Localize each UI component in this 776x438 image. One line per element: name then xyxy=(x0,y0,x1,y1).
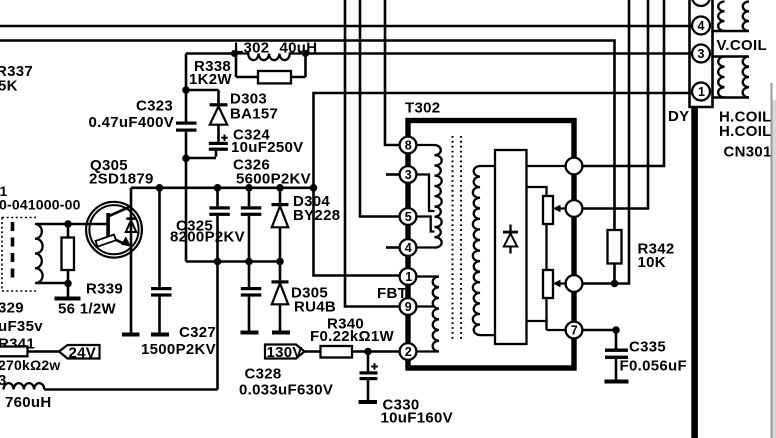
wire top rail to CN301 pin 4 xyxy=(0,25,692,28)
svg-text:270kΩ2w: 270kΩ2w xyxy=(0,357,60,373)
T302 pin 8 xyxy=(400,137,417,154)
node L302 right junction dot xyxy=(302,50,309,57)
wire FBT pin 9 feed xyxy=(345,0,400,307)
potentiometer focus xyxy=(543,196,553,224)
H yoke coil top bar xyxy=(713,55,749,58)
svg-text:L302: L302 xyxy=(234,40,269,57)
T302 focus pot wiper arrow xyxy=(553,205,566,213)
label R339 xyxy=(86,281,123,298)
label L302 40uH xyxy=(234,40,317,57)
resistor R339 xyxy=(62,224,75,284)
label C325 xyxy=(176,218,213,235)
label R340 xyxy=(327,316,364,333)
inductor L302 xyxy=(236,54,306,61)
label 10K xyxy=(638,254,666,271)
svg-text:7: 7 xyxy=(571,323,578,337)
svg-text:H.COIL: H.COIL xyxy=(719,123,772,140)
label DY xyxy=(668,108,689,125)
diode D305 xyxy=(272,262,289,331)
diode D303 xyxy=(210,90,228,142)
transistor Q305 emitter stroke with arrow xyxy=(109,236,131,247)
svg-text:10uF250V: 10uF250V xyxy=(231,139,303,156)
resistor R338 xyxy=(258,71,291,83)
label 10uF160V xyxy=(381,409,453,426)
connector CN301 body xyxy=(688,0,713,107)
svg-text:3: 3 xyxy=(698,47,705,61)
svg-text:24V: 24V xyxy=(69,345,97,362)
label 1K2W xyxy=(189,71,232,88)
wire B+ line right segment (L302 box to CN301 pin 3) xyxy=(306,52,693,55)
label T302 xyxy=(405,100,440,117)
label FBT xyxy=(377,285,407,302)
label R342 xyxy=(638,241,675,258)
T302 focus output node xyxy=(566,200,583,217)
label C324 xyxy=(233,127,270,144)
ground for C328 xyxy=(241,331,259,335)
node R342 bottom junction dot xyxy=(611,280,619,288)
node collector rail junction dots xyxy=(156,184,318,192)
svg-text:10K: 10K xyxy=(638,254,666,271)
node mid rail junction dots xyxy=(214,258,284,266)
T302 pin 9 xyxy=(400,298,417,315)
svg-text:56 1/2W: 56 1/2W xyxy=(58,301,117,318)
svg-text:2: 2 xyxy=(405,345,412,359)
svg-text:5K: 5K xyxy=(0,78,18,95)
V yoke coil windings xyxy=(718,1,749,31)
label C327 xyxy=(179,324,216,341)
svg-text:3: 3 xyxy=(405,168,412,182)
T302 pin 2 xyxy=(400,343,417,360)
label R338 xyxy=(194,58,231,75)
svg-text:10uF160V: 10uF160V xyxy=(381,409,453,426)
deflection yoke thick lead xyxy=(691,107,698,438)
resistor R341 xyxy=(0,347,28,357)
T302 screen pot wiper arrow xyxy=(553,280,566,288)
connector CN301 pin 4 xyxy=(692,17,710,35)
label C329 fragment xyxy=(0,299,24,316)
ground for C327 xyxy=(151,333,169,337)
label D305 xyxy=(291,285,328,302)
node L302 left junction dot xyxy=(231,50,238,57)
wire C323 branch lower to mid rail xyxy=(185,132,188,262)
wire D303 branch jog xyxy=(186,89,219,92)
wire screen pot bottom to pin 7 xyxy=(527,298,566,330)
label 0.47uF400V xyxy=(89,114,175,131)
label 56 1/2W xyxy=(58,301,117,318)
label C330 xyxy=(383,397,420,414)
driver transformer secondary winding xyxy=(35,224,43,283)
capacitor C330 (electrolytic) xyxy=(360,352,378,401)
label C335 xyxy=(629,339,666,356)
label C323 xyxy=(136,98,173,115)
svg-text:C328: C328 xyxy=(245,365,282,382)
label R337 xyxy=(0,63,33,80)
label 2SD1879 xyxy=(89,171,154,188)
label D303 xyxy=(230,91,267,108)
window edge gray line xyxy=(771,83,776,438)
label 0.033uF630V xyxy=(239,382,333,399)
label CN301 xyxy=(724,144,772,161)
transistor Q305 collector/emitter vertical xyxy=(130,188,133,333)
capacitor C327 branch xyxy=(151,188,172,333)
T302 pin 7 xyxy=(566,322,583,339)
node D303 split junction dot xyxy=(182,86,190,94)
T302 core (dotted) xyxy=(453,136,462,340)
wire 24V line through R341 xyxy=(0,350,59,353)
T302 pin 9 tap xyxy=(417,305,435,307)
H yoke coil bottom bar xyxy=(713,96,749,99)
label R341 xyxy=(0,336,35,353)
label RU4B xyxy=(294,299,336,316)
wire collector node to CN301 pin 1 (H yoke return) xyxy=(314,93,693,276)
T302 primary lower winding xyxy=(417,277,440,352)
T302 primary upper winding xyxy=(417,145,442,248)
label L303 fragment xyxy=(0,372,7,389)
label 10uF35v fragment xyxy=(0,318,43,335)
connector CN301 pin 1 xyxy=(692,83,710,101)
resistor R340 xyxy=(321,346,353,358)
svg-text:R339: R339 xyxy=(86,281,123,298)
node R339 bottom junction dot xyxy=(64,280,72,288)
svg-text:1500P2KV: 1500P2KV xyxy=(141,341,216,358)
driver transformer T301 dotted enclosure xyxy=(2,218,36,292)
wire FBT pin 4 stub xyxy=(386,246,400,249)
svg-text:T302: T302 xyxy=(405,100,440,117)
T302 pin 4 xyxy=(400,239,417,256)
label 8200P2KV xyxy=(170,229,245,246)
tag 24V xyxy=(59,345,100,362)
svg-text:4: 4 xyxy=(698,19,705,33)
transistor Q305 collector stroke xyxy=(109,207,131,217)
H yoke coil windings xyxy=(718,56,749,97)
svg-text:DY: DY xyxy=(668,108,689,125)
connector CN301 pin 3 xyxy=(692,45,710,63)
svg-text:V.COIL: V.COIL xyxy=(717,37,767,54)
label C328 xyxy=(245,365,282,382)
wire C323 branch upper xyxy=(185,54,188,122)
wire FBT pin 5 feed xyxy=(360,0,400,217)
wire FBT pin 3 stub xyxy=(386,173,400,176)
T302 top output node xyxy=(566,158,583,175)
connector CN301 pin 5 (partial) xyxy=(692,0,710,6)
transistor Q305 internal base-emitter resistor xyxy=(96,235,116,247)
ground for R339 xyxy=(55,284,81,301)
T302 secondary winding xyxy=(473,166,495,335)
inductor L302 and resistor R338 parallel box right bar xyxy=(291,53,306,78)
label C326 xyxy=(233,157,270,174)
capacitor C335 xyxy=(605,330,628,380)
label 760uH xyxy=(5,394,52,411)
label 5K xyxy=(0,78,18,95)
ground for C335 xyxy=(605,380,629,384)
wire base drive (driver transformer to Q305 base) xyxy=(36,223,107,226)
label H.COIL second xyxy=(719,123,772,140)
svg-text:1: 1 xyxy=(405,270,412,284)
T302 pin 5 tap xyxy=(417,217,435,232)
wire second rail to R342 xyxy=(0,41,615,231)
svg-text:0-041000-00: 0-041000-00 xyxy=(0,197,81,213)
potentiometer screen xyxy=(543,270,553,298)
label part number line 2 xyxy=(0,197,81,213)
label BY228 xyxy=(293,207,340,224)
T302 pin 3 xyxy=(400,166,417,183)
svg-text:760uH: 760uH xyxy=(5,394,52,411)
wire collector rail xyxy=(131,187,314,190)
T302 screen output node xyxy=(566,275,583,292)
label BA157 xyxy=(230,106,278,123)
svg-text:uF35v: uF35v xyxy=(0,318,43,335)
wire focus pot to screen pot xyxy=(545,224,547,270)
svg-text:2SD1879: 2SD1879 xyxy=(89,171,154,188)
label 1500P2KV xyxy=(141,341,216,358)
diode D304 xyxy=(272,188,289,262)
svg-text:5: 5 xyxy=(405,210,412,224)
wire FBT pin 8 feed xyxy=(385,0,400,145)
node C324 return junction dot xyxy=(182,155,190,163)
label 10uF250V xyxy=(231,139,303,156)
wire bottom rail from L303 to S-cap column xyxy=(44,388,217,391)
svg-text:0.47uF400V: 0.47uF400V xyxy=(89,114,175,131)
label F0.22kohm1W xyxy=(310,328,394,345)
inductor L302 and resistor R338 parallel box left bar xyxy=(236,54,258,78)
label 5600P2KV xyxy=(236,171,311,188)
svg-text:BY228: BY228 xyxy=(293,207,340,224)
svg-text:1: 1 xyxy=(698,85,705,99)
svg-text:130V: 130V xyxy=(267,344,303,361)
wire 130V line through R340 to FBT pin 2 xyxy=(304,350,400,353)
svg-text:8200P2KV: 8200P2KV xyxy=(170,229,245,246)
wire FBT pin 7 to C335 xyxy=(583,329,617,332)
svg-text:CN301: CN301 xyxy=(724,144,772,161)
label V.COIL xyxy=(717,37,767,54)
T302 HV block to top output xyxy=(527,165,566,167)
T302 HV rectifier block xyxy=(495,150,527,344)
svg-text:329: 329 xyxy=(0,299,24,316)
svg-text:BA157: BA157 xyxy=(230,106,278,123)
label part number line 1 xyxy=(0,183,7,199)
T302 pin 3 tap xyxy=(417,175,435,212)
ground for Q305 emitter xyxy=(122,333,140,337)
T302 pin 5 xyxy=(400,208,417,225)
node C335 junction dot xyxy=(612,326,620,334)
svg-text:C323: C323 xyxy=(136,98,173,115)
transistor Q305 internal damper diode xyxy=(126,217,136,232)
capacitor C326 upper and C328 lower branch xyxy=(241,188,261,331)
svg-text:C327: C327 xyxy=(179,324,216,341)
wire screen output xyxy=(583,0,630,284)
wire mid rail (S-cap node) xyxy=(186,260,280,263)
wire B+ line left segment (C323 node to L302 box) xyxy=(186,52,234,55)
capacitor C323 xyxy=(176,122,197,132)
node base junction dot xyxy=(64,220,72,228)
capacitor C324 (electrolytic) xyxy=(186,135,228,159)
T302 HV diode xyxy=(503,225,518,254)
transistor Q305 base bar xyxy=(106,213,110,243)
transformer T302 thick enclosure xyxy=(408,121,574,369)
inductor L303 760uH xyxy=(4,383,45,389)
svg-text:F0.22kΩ1W: F0.22kΩ1W xyxy=(310,328,394,345)
resistor R342 xyxy=(608,230,622,284)
label H.COIL first xyxy=(719,109,772,126)
svg-text:0.033uF630V: 0.033uF630V xyxy=(239,382,333,399)
svg-text:1K2W: 1K2W xyxy=(189,71,232,88)
capacitor C325 branch (to bottom rail) xyxy=(209,188,230,390)
wire FBT top output xyxy=(583,0,665,166)
V yoke coil bottom bar xyxy=(713,30,749,33)
tag 130V xyxy=(265,344,305,361)
driver transformer core (dashed) xyxy=(11,222,15,284)
svg-text:C335: C335 xyxy=(629,339,666,356)
wire driver transformer return xyxy=(36,282,68,285)
label Q305 xyxy=(90,157,128,174)
svg-text:RU4B: RU4B xyxy=(294,299,336,316)
svg-text:F0.056uF: F0.056uF xyxy=(620,358,687,375)
label F0.056uF xyxy=(620,358,687,375)
svg-text:9: 9 xyxy=(405,300,412,314)
svg-text:8: 8 xyxy=(405,138,412,152)
label D304 xyxy=(293,193,330,210)
svg-text:40uH: 40uH xyxy=(280,40,318,57)
label 270kohm2w xyxy=(0,357,60,373)
ground for C330 xyxy=(359,400,378,404)
T302 focus pot feed xyxy=(527,187,547,196)
wire focus output xyxy=(583,0,649,209)
T302 pin 1 xyxy=(400,268,417,285)
node R340 output junction dot xyxy=(364,348,372,356)
svg-text:4: 4 xyxy=(405,241,412,255)
ground for D305 xyxy=(272,331,290,335)
transistor Q305 outline (double circle) xyxy=(86,202,142,258)
